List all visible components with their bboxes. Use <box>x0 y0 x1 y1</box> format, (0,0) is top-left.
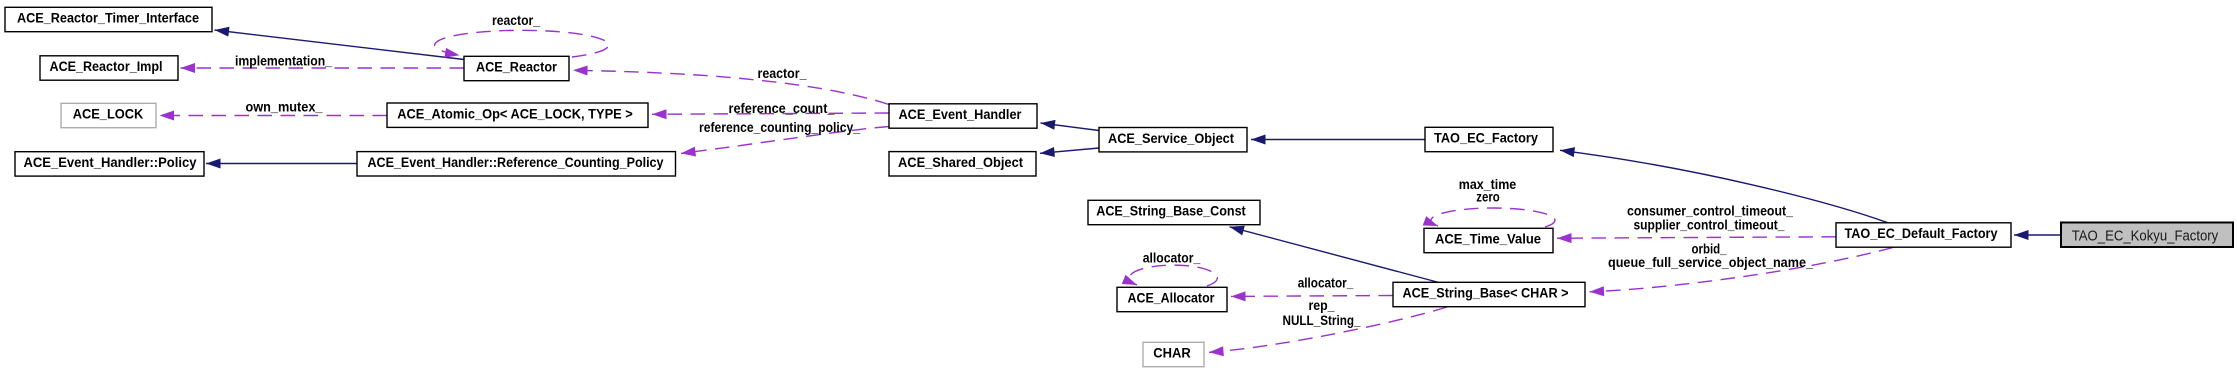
class box ACE_Shared_Object <box>889 152 1036 176</box>
svg-text:CHAR: CHAR <box>1153 346 1191 361</box>
svg-text:NULL_String_: NULL_String_ <box>1283 313 1361 328</box>
class box ACE_Time_Value <box>1424 228 1553 252</box>
svg-text:implementation_: implementation_ <box>235 54 332 69</box>
svg-text:TAO_EC_Kokyu_Factory: TAO_EC_Kokyu_Factory <box>2072 227 2219 244</box>
svg-text:TAO_EC_Factory: TAO_EC_Factory <box>1434 131 1539 146</box>
inheritance arrow TAO_EC_Kokyu_Factory to TAO_EC_Default_Factory <box>2014 234 2061 236</box>
svg-text:ACE_Event_Handler: ACE_Event_Handler <box>899 107 1023 122</box>
inheritance arrow ACE_String_Base&lt;CHAR&gt; to ACE_String_Base_Const <box>1230 227 1440 283</box>
svg-text:ACE_Shared_Object: ACE_Shared_Object <box>898 155 1024 170</box>
class box TAO_EC_Kokyu_Factory (current class, grey) <box>2061 223 2233 248</box>
svg-text:allocator_: allocator_ <box>1298 276 1354 291</box>
usage arrow consumer_control_timeout_ TAO_EC_Default_Factory to ACE_Time_Value <box>1557 237 1836 238</box>
svg-text:ACE_String_Base_Const: ACE_String_Base_Const <box>1096 204 1246 219</box>
svg-text:reference_counting_policy_: reference_counting_policy_ <box>699 120 860 135</box>
svg-text:ACE_Reactor_Impl: ACE_Reactor_Impl <box>50 59 163 74</box>
svg-text:consumer_control_timeout_: consumer_control_timeout_ <box>1627 204 1793 219</box>
class box ACE_Reactor_Impl <box>40 56 178 80</box>
svg-text:ACE_LOCK: ACE_LOCK <box>73 107 144 122</box>
svg-text:supplier_control_timeout_: supplier_control_timeout_ <box>1634 218 1785 233</box>
class box ACE_Event_Handler::Policy <box>15 152 204 176</box>
svg-text:ACE_String_Base< CHAR >: ACE_String_Base< CHAR > <box>1403 286 1569 301</box>
inheritance arrow ACE_Service_Object to ACE_Event_Handler <box>1041 123 1100 131</box>
inheritance arrow ACE_Reactor to ACE_Reactor_Timer_Interface <box>215 30 465 60</box>
svg-text:ACE_Time_Value: ACE_Time_Value <box>1435 232 1541 247</box>
class box ACE_String_Base&lt; CHAR &gt; <box>1393 282 1585 306</box>
inheritance arrow TAO_EC_Default_Factory to TAO_EC_Factory <box>1560 150 1888 223</box>
class box CHAR <box>1143 342 1204 366</box>
inheritance arrow ACE_Event_Handler::Reference_Counting_Policy to ACE_Event_Handler::Policy <box>206 163 357 165</box>
svg-text:zero: zero <box>1476 190 1500 205</box>
class box ACE_Atomic_Op&lt; ACE_LOCK, TYPE &gt; <box>387 103 648 127</box>
svg-text:ACE_Atomic_Op< ACE_LOCK, TYPE: ACE_Atomic_Op< ACE_LOCK, TYPE > <box>397 106 633 121</box>
svg-text:TAO_EC_Default_Factory: TAO_EC_Default_Factory <box>1845 226 1999 241</box>
usage arrow allocator_ ACE_String_Base&lt;CHAR&gt; to ACE_Allocator <box>1231 295 1393 298</box>
inheritance arrow ACE_Service_Object to ACE_Shared_Object <box>1040 148 1099 153</box>
svg-text:own_mutex_: own_mutex_ <box>246 100 324 115</box>
class box ACE_Reactor <box>464 56 569 80</box>
svg-text:queue_full_service_object_name: queue_full_service_object_name_ <box>1608 255 1814 270</box>
svg-text:ACE_Event_Handler::Policy: ACE_Event_Handler::Policy <box>24 155 198 170</box>
svg-text:allocator_: allocator_ <box>1143 251 1201 266</box>
svg-text:ACE_Reactor_Timer_Interface: ACE_Reactor_Timer_Interface <box>17 11 199 26</box>
usage self-loop allocator_ on ACE_Allocator <box>1129 265 1217 286</box>
class box ACE_Event_Handler::Reference_Counting_Policy <box>357 152 676 176</box>
usage self-loop max_time zero on ACE_Time_Value <box>1431 208 1555 227</box>
usage self-loop reactor_ on ACE_Reactor <box>435 30 609 57</box>
class box ACE_Reactor_Timer_Interface <box>5 7 212 31</box>
svg-text:rep_: rep_ <box>1309 298 1335 313</box>
usage arrow implementation_ ACE_Reactor to ACE_Reactor_Impl <box>181 67 465 69</box>
usage arrow reference_count_ ACE_Event_Handler to ACE_Atomic_Op <box>652 113 889 114</box>
class box ACE_LOCK <box>61 103 156 127</box>
svg-text:reactor_: reactor_ <box>492 13 540 28</box>
class box ACE_Allocator <box>1117 287 1227 311</box>
svg-text:ACE_Allocator: ACE_Allocator <box>1128 291 1216 306</box>
class box TAO_EC_Factory <box>1425 127 1553 151</box>
usage arrow reference_counting_policy_ ACE_Event_Handler to ACE_Event_Handler::Reference_Counting_Policy <box>681 127 889 154</box>
class box TAO_EC_Default_Factory <box>1836 223 2011 247</box>
inheritance arrow TAO_EC_Factory to ACE_Service_Object <box>1251 139 1425 141</box>
svg-text:ACE_Reactor: ACE_Reactor <box>476 60 558 75</box>
class box ACE_Event_Handler <box>889 104 1037 128</box>
svg-text:ACE_Service_Object: ACE_Service_Object <box>1108 131 1235 146</box>
usage arrow reactor_ ACE_Event_Handler to ACE_Reactor <box>573 70 889 104</box>
usage arrow orbid_ TAO_EC_Default_Factory to ACE_String_Base&lt;CHAR&gt; <box>1590 248 1894 292</box>
svg-text:reactor_: reactor_ <box>758 66 808 81</box>
class box ACE_String_Base_Const <box>1088 200 1260 224</box>
usage arrow own_mutex_ ACE_Atomic_Op to ACE_LOCK <box>160 115 388 117</box>
class box ACE_Service_Object <box>1099 128 1247 152</box>
usage arrow rep_ NULL_String_ ACE_String_Base&lt;CHAR&gt; to CHAR <box>1209 307 1447 352</box>
svg-text:ACE_Event_Handler::Reference_C: ACE_Event_Handler::Reference_Counting_Po… <box>368 155 665 170</box>
svg-text:reference_count_: reference_count_ <box>729 101 836 116</box>
